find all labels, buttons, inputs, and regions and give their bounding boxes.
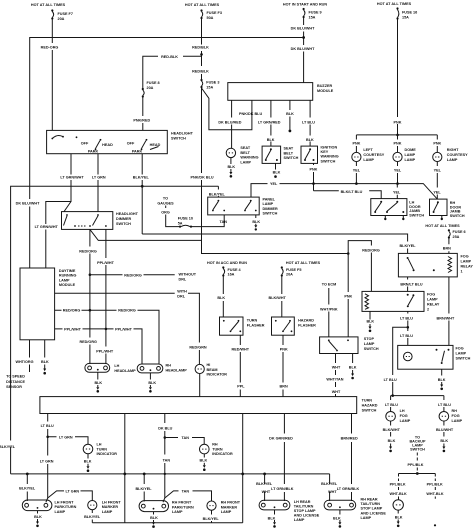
wire: BLU/WHT RH fog lamp to ground — [443, 421, 445, 436]
wire: DK BLU/RED buzzer pin1 to seat belt warning lamp — [231, 100, 233, 148]
svg-text:FOG: FOG — [456, 346, 464, 350]
svg-text:WITHOUT: WITHOUT — [179, 273, 197, 277]
wire: LT GRN stub to LH turn indicator — [48, 437, 88, 444]
svg-text:DK BLU/WHT: DK BLU/WHT — [16, 201, 40, 205]
svg-text:20A: 20A — [147, 86, 154, 90]
svg-text:TURN: TURN — [247, 319, 258, 323]
svg-text:RH REAR: RH REAR — [361, 498, 378, 502]
svg-text:PNK: PNK — [344, 294, 352, 298]
svg-text:LAMP: LAMP — [294, 518, 305, 522]
LH front park/turn lamp — [22, 500, 76, 514]
wire: BLK/LT BLU to LH door jamb switch — [314, 191, 382, 199]
svg-text:BLK/YEL: BLK/YEL — [203, 517, 220, 521]
svg-text:LAMP: LAMP — [172, 510, 183, 514]
svg-text:FUSE F3: FUSE F3 — [207, 11, 222, 15]
svg-text:WHT/TAN: WHT/TAN — [326, 377, 343, 381]
svg-text:PPL/WHT: PPL/WHT — [115, 327, 133, 331]
wire: RED/ORG line to WITHOUT DRL — [90, 274, 175, 276]
wire: PPL/BLK - WHT-BLK to backup lamp — [398, 474, 400, 500]
wire: DK BLU/WHT fuse 9 down to buzzer module — [303, 18, 305, 83]
svg-text:LAMP: LAMP — [55, 510, 66, 514]
svg-text:MODULE: MODULE — [59, 283, 76, 287]
svg-text:ORG: ORG — [161, 210, 170, 214]
svg-text:GAUGES: GAUGES — [157, 201, 174, 205]
svg-text:LH REAR: LH REAR — [294, 500, 311, 504]
svg-text:LT GRN: LT GRN — [59, 435, 73, 439]
svg-text:BLK: BLK — [252, 220, 260, 224]
svg-text:PPL: PPL — [237, 384, 245, 388]
wire: BLK LH rear ground — [274, 510, 276, 515]
svg-text:PARK: PARK — [88, 149, 99, 153]
svg-text:TAN: TAN — [181, 436, 189, 440]
wire: BLK buzzer pin4 to splice — [289, 100, 291, 129]
wire: LT GRN headlight switch output to dimmer — [97, 154, 99, 212]
svg-text:PPL/WHT: PPL/WHT — [96, 349, 114, 353]
svg-text:DK BLU/WHT: DK BLU/WHT — [291, 26, 315, 30]
svg-text:LAMP: LAMP — [363, 158, 374, 162]
svg-text:OFF: OFF — [81, 142, 89, 146]
svg-text:BLK/YEL: BLK/YEL — [399, 244, 416, 248]
svg-text:LH FRONT: LH FRONT — [102, 500, 122, 504]
svg-text:RED/ORG: RED/ORG — [124, 273, 142, 277]
wire: RED/WHT - PPL turn flasher to turn/hazard switch — [239, 335, 241, 396]
svg-text:PARK/TURN: PARK/TURN — [172, 505, 194, 509]
svg-text:BLK: BLK — [349, 365, 357, 369]
wire: BLK fuse 4 to turn flasher — [222, 277, 224, 318]
svg-text:BRN/LT BLU: BRN/LT BLU — [400, 282, 423, 286]
svg-text:RELAY: RELAY — [461, 265, 474, 269]
svg-text:BLK: BLK — [388, 439, 396, 443]
svg-text:INDICATOR: INDICATOR — [97, 452, 118, 456]
wire: PPL/BLK - WHT-BLK right dashed stub — [434, 474, 436, 499]
seat belt warning lamp — [226, 146, 258, 164]
fuse 10 5A — [178, 217, 193, 228]
svg-text:LAMP: LAMP — [447, 158, 458, 162]
svg-text:RED/ORG: RED/ORG — [79, 249, 97, 253]
svg-text:BRN/RED: BRN/RED — [341, 437, 358, 441]
svg-text:DRL: DRL — [177, 294, 185, 298]
svg-text:BLK/LT BLU: BLK/LT BLU — [341, 190, 363, 194]
wire: BLK/YEL drop to RH front park/turn lamp — [143, 474, 145, 502]
svg-text:PANEL: PANEL — [263, 198, 276, 202]
svg-text:BLK/YEL: BLK/YEL — [133, 175, 150, 179]
svg-text:BLK/YEL: BLK/YEL — [209, 192, 226, 196]
junction: RED/BLK branch — [200, 53, 203, 56]
svg-text:LT BLU: LT BLU — [400, 334, 413, 338]
svg-text:LT BLU: LT BLU — [385, 403, 398, 407]
wire: LT BLU fog lamp bus — [391, 395, 444, 397]
svg-text:AND LICENSE: AND LICENSE — [361, 511, 387, 515]
svg-text:FUSE 3: FUSE 3 — [206, 81, 219, 85]
svg-text:PNK/DK BLU: PNK/DK BLU — [190, 175, 213, 179]
svg-text:YEL: YEL — [433, 191, 441, 195]
wire: BLK/YEL into panel lamp dimmer switch — [217, 186, 219, 197]
wire: BLK/YEL RH marker to marker line — [211, 510, 213, 523]
svg-text:DIMMER: DIMMER — [116, 217, 131, 221]
svg-text:WHT-BLK: WHT-BLK — [389, 492, 407, 496]
svg-text:50A: 50A — [207, 16, 214, 20]
svg-text:FLASHER: FLASHER — [247, 323, 265, 327]
svg-text:FUSE 8: FUSE 8 — [147, 81, 160, 85]
svg-text:RED/ORG: RED/ORG — [118, 309, 136, 313]
svg-text:BLK: BLK — [273, 171, 281, 175]
wire: LT BLU buzzer pin5 to ignition key warning switch — [309, 100, 311, 146]
svg-text:SWITCH: SWITCH — [321, 159, 336, 163]
junction: tee at x348 — [347, 252, 350, 255]
svg-text:BLK/YEL: BLK/YEL — [19, 487, 36, 491]
svg-text:RH: RH — [212, 443, 218, 447]
wire: DK BLU/WHT run left and down to DRL module — [30, 38, 304, 269]
svg-text:LAMP: LAMP — [405, 158, 416, 162]
svg-text:LT GRN/RED: LT GRN/RED — [258, 120, 281, 124]
svg-text:LH: LH — [97, 443, 102, 447]
wire: BLK LH front park/turn ground — [37, 511, 39, 514]
wire: BLK/YEL headlight switch output — [141, 154, 143, 234]
svg-text:FOG: FOG — [461, 255, 469, 259]
seat belt switch — [262, 146, 298, 163]
wire: YEL right courtesy lamp to RH door jamb switch — [436, 162, 438, 200]
wire: BLK LH headlamp ground — [97, 372, 99, 379]
LH turn indicator — [83, 443, 117, 457]
svg-text:FOG: FOG — [400, 414, 408, 418]
LH rear tail/turn stop lamp — [259, 500, 320, 522]
headlight dimmer switch — [62, 212, 139, 230]
svg-text:TURN: TURN — [97, 447, 108, 451]
wire: fuse 3 under-route to buzzer module pin 2 — [202, 88, 252, 130]
svg-text:YEL: YEL — [434, 168, 442, 172]
svg-text:RED/ORG: RED/ORG — [79, 340, 97, 344]
svg-text:PARK/TURN: PARK/TURN — [55, 505, 77, 509]
wire: WHT/PNK stop lamp switch to ECM — [328, 288, 330, 337]
wire: hi beam indicator to turn/hazard switch — [199, 374, 201, 397]
svg-text:PPL/BLK: PPL/BLK — [390, 483, 406, 487]
wire: YEL bus — [251, 184, 437, 200]
svg-text:HEAD: HEAD — [102, 143, 113, 147]
fuse F3 50A — [200, 9, 222, 20]
svg-text:TURN: TURN — [362, 399, 373, 403]
svg-text:HEADLAMP: HEADLAMP — [166, 369, 188, 373]
svg-text:SWITCH: SWITCH — [410, 448, 425, 452]
svg-text:BLK: BLK — [438, 378, 446, 382]
wire: BLK RH front park/turn ground — [153, 512, 155, 515]
PNK courtesy lamp bus — [356, 134, 437, 136]
wire: LT BLU drop to LH fog lamp — [390, 396, 392, 412]
wire: RED/ORG dimmer output down to headlamp — [89, 229, 91, 364]
svg-text:SENSOR: SENSOR — [6, 385, 22, 389]
wire: YEL drop to LH door jamb switch — [396, 184, 398, 199]
svg-text:YEL: YEL — [353, 168, 361, 172]
LH front marker lamp — [88, 500, 122, 514]
svg-text:DK BLU/RED: DK BLU/RED — [218, 120, 241, 124]
svg-text:TAIL/TURN: TAIL/TURN — [361, 502, 381, 506]
svg-text:BEAM: BEAM — [207, 368, 218, 372]
svg-text:FUSE 10: FUSE 10 — [178, 217, 193, 221]
svg-text:BLK/YEL: BLK/YEL — [0, 445, 16, 449]
junction: RED/ORG at without-DRL line — [89, 273, 92, 276]
svg-text:SWITCH: SWITCH — [364, 347, 379, 351]
svg-text:FUSE 16: FUSE 16 — [402, 11, 417, 15]
svg-text:RUNNING: RUNNING — [59, 274, 77, 278]
wire: PNK drop to dome lamp — [397, 135, 399, 153]
wire: LT BLU drop to RH fog lamp — [443, 396, 445, 412]
svg-text:MARKER: MARKER — [221, 505, 238, 509]
junction: LT BLU tee — [407, 326, 410, 329]
wire: BLK seat belt switch to ground — [275, 163, 277, 169]
svg-text:LT GRN: LT GRN — [92, 175, 106, 179]
wire: WHT stop lamp switch to turn/hazard switch — [335, 354, 337, 397]
svg-text:HOT IN START AND RUN: HOT IN START AND RUN — [283, 3, 327, 7]
svg-text:BLK: BLK — [150, 516, 158, 520]
svg-text:TO ECM: TO ECM — [322, 282, 337, 286]
svg-text:15A: 15A — [402, 16, 409, 20]
svg-text:LAMP: LAMP — [400, 419, 411, 423]
wire: YEL left courtesy lamp to yel bus — [355, 162, 357, 184]
svg-text:TURN: TURN — [212, 447, 223, 451]
fuse 3 15A — [200, 79, 219, 90]
svg-text:DIMMER: DIMMER — [263, 207, 278, 211]
LH headlamp — [85, 363, 136, 372]
wire: BRN fuse 6 to fog lamp relay 1 — [448, 239, 450, 254]
junction: backup split — [416, 472, 419, 475]
wire: ORG through fuse 10 to TAN line — [166, 215, 225, 227]
junction dots on park bus — [26, 473, 29, 476]
junction: yel bus at left courtesy — [355, 182, 358, 185]
svg-text:LH: LH — [114, 364, 119, 368]
wire: BLK/YEL line to fog lamp relay 1 — [142, 234, 407, 253]
svg-text:WITH: WITH — [177, 290, 187, 294]
wire: BLK/YEL bus end to RH rear lamp — [329, 474, 331, 501]
svg-text:BLK: BLK — [366, 320, 374, 324]
wire: BRN/LT BLU relay1 to relay2 — [407, 277, 409, 292]
svg-text:WHT: WHT — [332, 390, 341, 394]
svg-text:RIGHT: RIGHT — [447, 148, 459, 152]
svg-text:PNK/DK BLU: PNK/DK BLU — [239, 112, 262, 116]
backup lamp — [393, 500, 403, 510]
svg-text:RH: RH — [452, 409, 458, 413]
svg-text:RH FRONT: RH FRONT — [221, 501, 241, 505]
svg-text:20A: 20A — [286, 273, 293, 277]
svg-text:HI: HI — [207, 363, 211, 367]
svg-text:AND LICENSE: AND LICENSE — [294, 514, 320, 518]
svg-text:LAMP: LAMP — [427, 297, 438, 301]
svg-text:BRN/WHT: BRN/WHT — [437, 316, 455, 320]
svg-text:INDICATOR: INDICATOR — [212, 452, 233, 456]
wire: BLK/YEL marker line — [92, 522, 242, 524]
svg-text:SEAT: SEAT — [240, 146, 250, 150]
svg-text:YEL: YEL — [394, 168, 402, 172]
svg-text:PNK: PNK — [394, 142, 402, 146]
svg-text:FUSE 9: FUSE 9 — [309, 11, 322, 15]
wire: WITH DRL line from module to hi-beam indicator — [55, 293, 200, 364]
svg-text:25A: 25A — [453, 235, 460, 239]
junction: yel bus at dome — [396, 182, 399, 185]
ground — [274, 175, 277, 178]
svg-text:LT GRN/BLK: LT GRN/BLK — [271, 487, 294, 491]
ground — [229, 169, 232, 178]
wire: PNK drop to right courtesy lamp — [436, 135, 438, 153]
svg-text:LAMP: LAMP — [263, 202, 274, 206]
svg-text:15A: 15A — [309, 16, 316, 20]
svg-text:FOG: FOG — [452, 414, 460, 418]
svg-text:LAMP: LAMP — [461, 260, 472, 264]
wire: BLK RH turn indicator ground — [203, 454, 205, 458]
wire: BLK relay2 to ground — [369, 311, 371, 319]
wire: switch output to bus and marker line (x242.7) — [242, 414, 244, 523]
wire: BLK module to ground — [44, 340, 46, 358]
svg-text:MODULE: MODULE — [317, 89, 334, 93]
svg-text:16A: 16A — [228, 273, 235, 277]
svg-text:SWITCH: SWITCH — [362, 409, 377, 413]
fuse 6 25A — [448, 229, 466, 239]
svg-text:WHT/PNK: WHT/PNK — [320, 307, 338, 311]
svg-text:BLK: BLK — [440, 439, 448, 443]
wire: PPL/BLK dashed from backup lamp switch — [416, 453, 418, 474]
svg-text:HOT IN ACC AND RUN: HOT IN ACC AND RUN — [207, 261, 247, 265]
svg-text:DK BLU/WHT: DK BLU/WHT — [291, 47, 315, 51]
wire: BLK LH turn indicator ground — [87, 454, 89, 459]
RH turn indicator — [200, 443, 233, 457]
svg-text:LT GRN/WHT: LT GRN/WHT — [35, 225, 59, 229]
fuse 9 15A — [303, 8, 322, 20]
wire: BLK/YEL long line to panel dimmer and left down — [11, 186, 219, 474]
svg-text:LT GRN: LT GRN — [40, 460, 54, 464]
svg-text:STOP: STOP — [364, 337, 375, 341]
wire: RED/ORG diagonal to long run — [90, 229, 202, 240]
svg-text:FUSE 4: FUSE 4 — [228, 268, 242, 272]
wire: TAN stub to RH turn indicator — [165, 438, 204, 445]
svg-text:LT BLU: LT BLU — [400, 316, 413, 320]
wire: LT GRN/WHT headlight switch output — [46, 154, 71, 268]
svg-text:DRL: DRL — [179, 277, 187, 281]
svg-text:PARK: PARK — [132, 149, 143, 153]
wire: LT GRN/WHT branch to dimmer switch — [64, 202, 71, 212]
svg-text:BLK/WHT: BLK/WHT — [269, 296, 287, 300]
svg-text:BELT: BELT — [240, 151, 250, 155]
svg-text:BLK: BLK — [84, 460, 92, 464]
junction: BLK/YEL at long line — [141, 185, 144, 188]
svg-text:WHT: WHT — [332, 365, 341, 369]
svg-text:LT BLU: LT BLU — [438, 403, 451, 407]
svg-text:PNK/RED: PNK/RED — [133, 118, 150, 122]
svg-text:BLK: BLK — [306, 138, 314, 142]
wire: PNK drop to left courtesy lamp — [355, 135, 357, 153]
wire: LT BLU relay2 output — [407, 311, 409, 345]
fuse F5 20A — [281, 266, 302, 276]
svg-text:PNK: PNK — [280, 347, 288, 351]
turn hazard switch — [40, 397, 357, 414]
svg-text:BRN: BRN — [280, 384, 288, 388]
svg-text:LEFT: LEFT — [363, 148, 373, 152]
wire: switch output to bus and marker line (x124.6) — [124, 414, 126, 523]
svg-text:SWITCH: SWITCH — [456, 357, 471, 361]
svg-text:WHT: WHT — [262, 490, 271, 494]
svg-text:SEAT: SEAT — [284, 147, 294, 151]
svg-text:5A: 5A — [178, 221, 183, 225]
svg-text:SWITCH: SWITCH — [284, 156, 299, 160]
svg-text:15A: 15A — [206, 86, 213, 90]
wire: RED-ORG fuse F7 to headlight switch — [51, 20, 53, 131]
svg-text:PNK: PNK — [352, 142, 360, 146]
buzzer module — [228, 83, 313, 101]
wire: LH jamb ground stubs — [385, 216, 403, 219]
svg-text:LAMP: LAMP — [452, 419, 463, 423]
junction: LT GRN tee — [46, 436, 49, 439]
svg-text:HOT AT ALL TIMES: HOT AT ALL TIMES — [185, 3, 220, 7]
svg-text:LT GRN/WHT: LT GRN/WHT — [60, 175, 84, 179]
svg-text:BLK: BLK — [217, 296, 225, 300]
svg-text:KEY: KEY — [321, 150, 329, 154]
svg-text:INDICATOR: INDICATOR — [207, 373, 228, 377]
svg-text:PPL/BLK: PPL/BLK — [427, 483, 443, 487]
svg-text:SWITCH: SWITCH — [450, 214, 465, 218]
daytime running lamp module — [20, 268, 76, 340]
wire: LT BLU branch to fog lamp bus — [393, 327, 408, 395]
LH door jamb switch — [371, 199, 425, 218]
junction: TAN tee — [164, 436, 167, 439]
wire: RH jamb ground stub — [441, 216, 443, 219]
junction: DK BLU/WHT distribution — [302, 36, 305, 39]
RH front park/turn lamp — [139, 501, 194, 515]
svg-text:HEADLAMP: HEADLAMP — [114, 369, 136, 373]
svg-text:DAYTIME: DAYTIME — [59, 269, 76, 273]
wire: LT BLU / LT GRN switch output to LH front park/turn lamp — [46, 414, 48, 503]
svg-text:WARNING: WARNING — [321, 155, 339, 159]
wire: DK BLU / TAN switch output to RH front park/turn lamp — [163, 414, 165, 503]
svg-text:BLK/YEL: BLK/YEL — [256, 482, 273, 486]
svg-text:HEAD: HEAD — [150, 143, 161, 147]
RH headlamp — [137, 364, 187, 373]
svg-text:HOT AT ALL TIMES: HOT AT ALL TIMES — [377, 2, 412, 6]
svg-text:BLK: BLK — [148, 381, 156, 385]
svg-text:RED/BLK: RED/BLK — [192, 69, 209, 73]
svg-text:RED/ORG: RED/ORG — [63, 309, 81, 313]
svg-text:DOME: DOME — [405, 148, 417, 152]
svg-text:LAMP: LAMP — [221, 510, 232, 514]
wire: RED/ORG module line to RH headlamp — [55, 310, 159, 364]
svg-text:OFF: OFF — [127, 142, 135, 146]
svg-text:BLU/WHT: BLU/WHT — [436, 428, 454, 432]
svg-text:LAMP: LAMP — [364, 342, 375, 346]
RH fog lamp — [439, 409, 463, 423]
wire: PNK/DK BLU long feed from fuse 3 down and right — [202, 88, 349, 254]
svg-text:WARNING: WARNING — [240, 156, 258, 160]
wire: PPL/WHT dimmer output down to headlamp — [105, 229, 107, 364]
svg-text:BLK: BLK — [286, 112, 294, 116]
RH front marker lamp — [207, 501, 241, 515]
wire: YEL dome lamp to yel bus — [397, 162, 399, 184]
svg-text:RED/WHT: RED/WHT — [232, 347, 250, 351]
svg-text:1: 1 — [461, 270, 463, 274]
wire: BLK stop lamp switch to ground — [352, 354, 354, 364]
svg-text:LT BLU: LT BLU — [302, 120, 315, 124]
svg-text:LAMP: LAMP — [240, 160, 251, 164]
svg-text:SWITCH: SWITCH — [116, 222, 131, 226]
svg-text:SWITCH: SWITCH — [409, 214, 424, 218]
svg-text:RED/ORG: RED/ORG — [362, 248, 380, 252]
fog lamp relay 2 — [362, 291, 440, 311]
wire: TAN marker stub RH — [165, 491, 212, 501]
svg-text:TO: TO — [163, 196, 168, 200]
svg-text:BLK: BLK — [333, 516, 341, 520]
wire: BRN/WHT relay1 to fog lamp switch — [448, 277, 450, 346]
svg-text:TAIL/TURN: TAIL/TURN — [294, 505, 314, 509]
svg-text:HAZARD: HAZARD — [298, 319, 314, 323]
svg-text:HEADLIGHT: HEADLIGHT — [116, 212, 139, 216]
fuse 4 16A — [222, 266, 241, 276]
wire: BLK/YEL drop to LH front park/turn lamp — [26, 474, 28, 501]
wire: DK GRN/RED switch output to LH rear lamp — [283, 414, 285, 502]
svg-text:LH: LH — [400, 409, 405, 413]
